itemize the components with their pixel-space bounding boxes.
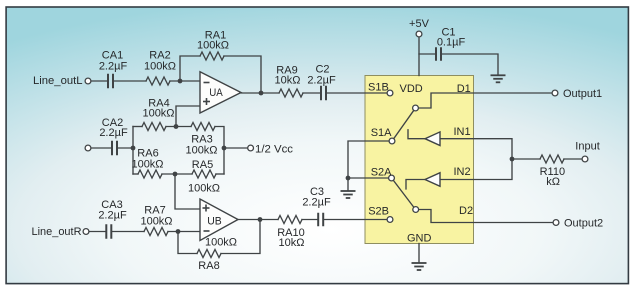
svg-text:100kΩ: 100kΩ (185, 145, 217, 157)
svg-text:GND: GND (407, 233, 432, 245)
svg-text:IN2: IN2 (454, 166, 471, 178)
svg-text:2.2µF: 2.2µF (302, 197, 331, 209)
svg-text:S1B: S1B (368, 82, 389, 94)
svg-text:VDD: VDD (400, 83, 423, 95)
svg-text:Line_outL: Line_outL (33, 75, 83, 87)
svg-text:D1: D1 (457, 83, 471, 95)
svg-text:S1A: S1A (371, 127, 392, 139)
svg-text:0.1µF: 0.1µF (437, 37, 466, 49)
svg-text:100kΩ: 100kΩ (197, 40, 229, 52)
svg-text:1/2 Vcc: 1/2 Vcc (255, 144, 294, 156)
svg-text:Line_outR: Line_outR (32, 226, 82, 238)
svg-text:2.2µF: 2.2µF (307, 75, 336, 87)
svg-text:10kΩ: 10kΩ (275, 75, 301, 87)
svg-text:100kΩ: 100kΩ (131, 159, 163, 171)
svg-text:UB: UB (207, 216, 222, 228)
svg-text:RA8: RA8 (198, 260, 219, 272)
svg-text:2.2µF: 2.2µF (98, 210, 127, 222)
svg-text:Output2: Output2 (564, 218, 603, 230)
svg-text:IN1: IN1 (454, 126, 471, 138)
svg-text:100kΩ: 100kΩ (144, 61, 176, 73)
svg-text:kΩ: kΩ (546, 176, 560, 188)
svg-text:Input: Input (575, 141, 599, 153)
svg-text:2.2µF: 2.2µF (99, 61, 128, 73)
svg-text:2.2µF: 2.2µF (99, 127, 128, 139)
svg-text:100kΩ: 100kΩ (142, 108, 174, 120)
svg-text:100kΩ: 100kΩ (140, 216, 172, 228)
svg-text:Output1: Output1 (563, 88, 602, 100)
svg-text:D2: D2 (459, 205, 473, 217)
svg-text:+5V: +5V (409, 18, 430, 30)
svg-text:RA5: RA5 (192, 159, 213, 171)
svg-text:100kΩ: 100kΩ (188, 183, 220, 195)
svg-text:10kΩ: 10kΩ (279, 237, 305, 249)
svg-text:S2B: S2B (368, 206, 389, 218)
svg-text:UA: UA (209, 87, 223, 99)
svg-text:S2A: S2A (371, 167, 392, 179)
svg-text:100kΩ: 100kΩ (205, 237, 237, 249)
